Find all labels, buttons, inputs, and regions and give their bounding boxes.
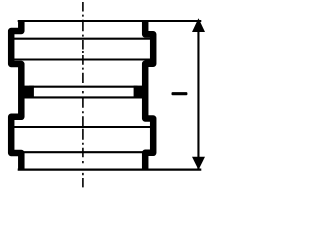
dimension label dash [172, 92, 188, 95]
middle groove lower line L5 [29, 96, 138, 98]
top edge line with extension to dimension line [18, 20, 202, 22]
rib boundary line L6 [13, 126, 156, 128]
centerline (vertical dash-dot axis) [82, 2, 84, 187]
middle plate end cap right [134, 86, 145, 99]
rib boundary line L2 [13, 38, 156, 40]
rib boundary line L7 [13, 151, 156, 153]
middle groove upper line L4 [29, 86, 138, 88]
rib boundary line L3 [13, 58, 156, 60]
dimension arrowhead top [192, 18, 205, 32]
dimension arrowhead bottom [192, 157, 205, 170]
bottom edge line with extension to dimension line [18, 168, 202, 170]
part outline right (thick stepped edge) [145, 21, 153, 170]
middle plate end cap left [23, 86, 34, 99]
dimension line (vertical) [197, 21, 199, 170]
part outline left (thick stepped edge) [11, 21, 21, 170]
